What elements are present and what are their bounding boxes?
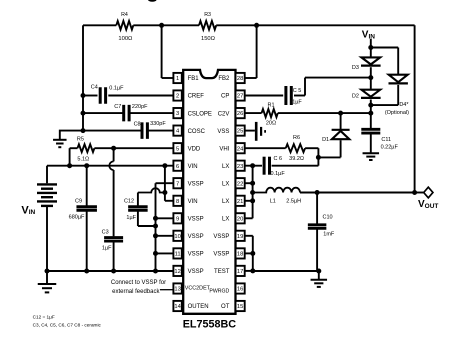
svg-text:1mF: 1mF bbox=[323, 231, 335, 237]
svg-text:8: 8 bbox=[176, 199, 179, 205]
svg-text:C12: C12 bbox=[124, 199, 134, 205]
svg-text:1µF: 1µF bbox=[126, 215, 136, 221]
svg-text:VSSP: VSSP bbox=[188, 252, 204, 258]
svg-text:20: 20 bbox=[237, 216, 243, 222]
svg-text:PWRGD: PWRGD bbox=[209, 289, 229, 295]
svg-text:VSSP: VSSP bbox=[188, 181, 204, 187]
svg-text:10: 10 bbox=[174, 234, 180, 240]
svg-text:LX: LX bbox=[222, 199, 229, 205]
svg-text:C11: C11 bbox=[381, 137, 391, 143]
svg-text:C4: C4 bbox=[91, 84, 98, 90]
svg-text:16: 16 bbox=[237, 287, 243, 293]
svg-text:COSC: COSC bbox=[188, 129, 206, 135]
svg-text:C8: C8 bbox=[134, 121, 141, 127]
svg-text:CSLOPE: CSLOPE bbox=[188, 111, 212, 117]
svg-text:39.2Ω: 39.2Ω bbox=[289, 156, 304, 162]
svg-text:C2V: C2V bbox=[218, 111, 230, 117]
svg-text:100Ω: 100Ω bbox=[118, 36, 133, 42]
svg-text:VSS: VSS bbox=[217, 129, 229, 135]
svg-text:23: 23 bbox=[237, 164, 243, 170]
svg-text:5: 5 bbox=[176, 146, 179, 152]
svg-text:150Ω: 150Ω bbox=[201, 36, 216, 42]
svg-text:680µF: 680µF bbox=[69, 214, 85, 220]
svg-text:FB2: FB2 bbox=[218, 76, 230, 82]
svg-text:CREF: CREF bbox=[188, 94, 205, 100]
svg-text:26: 26 bbox=[237, 111, 243, 117]
svg-text:FB1: FB1 bbox=[188, 76, 200, 82]
svg-text:CP: CP bbox=[221, 94, 229, 100]
svg-text:220pF: 220pF bbox=[132, 104, 148, 110]
svg-text:VSSP: VSSP bbox=[188, 217, 204, 223]
svg-text:27: 27 bbox=[237, 94, 243, 100]
svg-text:external feedback: external feedback bbox=[112, 289, 160, 295]
svg-text:22: 22 bbox=[237, 181, 243, 187]
svg-text:(Optional): (Optional) bbox=[385, 110, 409, 116]
svg-text:C 6: C 6 bbox=[274, 156, 283, 162]
svg-text:C7: C7 bbox=[114, 104, 121, 110]
svg-text:VDD: VDD bbox=[188, 146, 201, 152]
svg-text:D2: D2 bbox=[352, 93, 359, 99]
svg-text:0.1µF: 0.1µF bbox=[271, 171, 286, 177]
svg-text:L1: L1 bbox=[270, 198, 276, 204]
svg-text:VSSP: VSSP bbox=[213, 252, 229, 258]
svg-text:C10: C10 bbox=[323, 214, 333, 220]
svg-text:18: 18 bbox=[237, 252, 243, 258]
svg-text:VIN: VIN bbox=[188, 199, 198, 205]
svg-text:OUTEN: OUTEN bbox=[188, 304, 209, 310]
svg-text:VSSP: VSSP bbox=[188, 234, 204, 240]
svg-text:28: 28 bbox=[237, 76, 243, 82]
svg-text:D4*: D4* bbox=[399, 102, 409, 108]
svg-text:9: 9 bbox=[176, 216, 179, 222]
svg-text:1µF: 1µF bbox=[102, 245, 112, 251]
svg-text:1µF: 1µF bbox=[292, 100, 302, 106]
svg-text:1: 1 bbox=[176, 76, 179, 82]
svg-text:0.22µF: 0.22µF bbox=[381, 145, 399, 151]
svg-text:19: 19 bbox=[237, 234, 243, 240]
svg-text:Connect to VSSP for: Connect to VSSP for bbox=[111, 280, 166, 286]
svg-text:R3: R3 bbox=[204, 12, 211, 18]
svg-text:C 5: C 5 bbox=[293, 88, 302, 94]
svg-text:7: 7 bbox=[176, 181, 179, 187]
svg-text:C9: C9 bbox=[75, 198, 82, 204]
svg-text:R4: R4 bbox=[121, 12, 128, 18]
svg-text:17: 17 bbox=[237, 269, 243, 275]
svg-text:VHI: VHI bbox=[219, 146, 229, 152]
svg-text:24: 24 bbox=[237, 146, 244, 152]
svg-text:2: 2 bbox=[176, 94, 179, 100]
svg-text:C12 = 1µF: C12 = 1µF bbox=[33, 315, 55, 320]
svg-text:EL7558BC: EL7558BC bbox=[183, 319, 237, 331]
svg-text:D1: D1 bbox=[322, 137, 329, 143]
svg-text:12: 12 bbox=[174, 269, 180, 275]
svg-text:6: 6 bbox=[176, 164, 179, 170]
svg-text:C3: C3 bbox=[102, 229, 109, 235]
svg-text:25: 25 bbox=[237, 129, 243, 135]
svg-text:15: 15 bbox=[237, 304, 243, 310]
svg-text:21: 21 bbox=[237, 199, 243, 205]
svg-text:LX: LX bbox=[222, 217, 229, 223]
svg-text:C3, C4, C5, C6, C7 C8 - cerami: C3, C4, C5, C6, C7 C8 - ceramic bbox=[33, 323, 102, 328]
svg-text:330pF: 330pF bbox=[150, 121, 166, 127]
svg-text:20Ω: 20Ω bbox=[266, 121, 276, 127]
svg-text:2.5µH: 2.5µH bbox=[286, 198, 301, 204]
svg-text:LX: LX bbox=[222, 164, 229, 170]
svg-text:OT: OT bbox=[221, 304, 230, 310]
svg-text:VSSP: VSSP bbox=[188, 269, 204, 275]
svg-text:R6: R6 bbox=[293, 135, 300, 141]
svg-text:LX: LX bbox=[222, 181, 229, 187]
svg-text:11: 11 bbox=[175, 252, 181, 258]
svg-text:0.1µF: 0.1µF bbox=[109, 85, 124, 91]
svg-text:D3: D3 bbox=[352, 65, 359, 71]
svg-text:VIN: VIN bbox=[188, 164, 198, 170]
svg-text:R1: R1 bbox=[267, 103, 274, 109]
svg-text:14: 14 bbox=[174, 304, 181, 310]
svg-text:R5: R5 bbox=[77, 136, 84, 142]
svg-text:13: 13 bbox=[174, 287, 180, 293]
svg-text:3: 3 bbox=[176, 111, 179, 117]
svg-text:VSSP: VSSP bbox=[213, 234, 229, 240]
svg-text:TEST: TEST bbox=[214, 269, 230, 275]
svg-text:5.1Ω: 5.1Ω bbox=[77, 156, 89, 162]
svg-text:VCC2DET: VCC2DET bbox=[185, 285, 211, 291]
